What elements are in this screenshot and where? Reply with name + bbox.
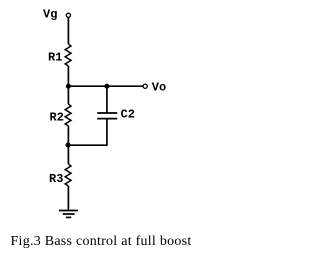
resistor R2 — [65, 104, 71, 126]
junction node A2 (capacitor tap) — [104, 84, 109, 89]
wire node A2 to C2 top plate — [106, 86, 108, 112]
wire node B to R3 — [67, 145, 69, 164]
svg-text:R2: R2 — [50, 110, 64, 124]
junction node B — [66, 143, 71, 148]
wire node A to R2 — [67, 86, 69, 104]
wire C2 bottom plate down — [106, 119, 108, 145]
wire Vg to R1 — [67, 18, 69, 44]
wire R3 to ground — [67, 186, 69, 211]
junction node A — [66, 84, 71, 89]
ground — [59, 211, 78, 218]
svg-text:C2: C2 — [121, 108, 135, 122]
terminal Vo — [143, 84, 147, 88]
svg-text:Vo: Vo — [152, 80, 166, 94]
wire C2 branch to node B — [68, 144, 108, 146]
svg-text:Fig.3 Bass control at full boo: Fig.3 Bass control at full boost — [11, 234, 192, 249]
svg-text:R3: R3 — [49, 172, 63, 186]
terminal Vg — [66, 13, 70, 17]
wire node A to Vo terminal — [68, 85, 143, 87]
resistor R1 — [65, 44, 71, 66]
wire R2 to node B — [67, 126, 69, 145]
wire R1 to node A — [67, 66, 69, 86]
svg-text:Vg: Vg — [43, 8, 57, 22]
resistor R3 — [65, 164, 71, 186]
svg-text:R1: R1 — [48, 50, 62, 64]
capacitor C2 — [97, 113, 117, 119]
